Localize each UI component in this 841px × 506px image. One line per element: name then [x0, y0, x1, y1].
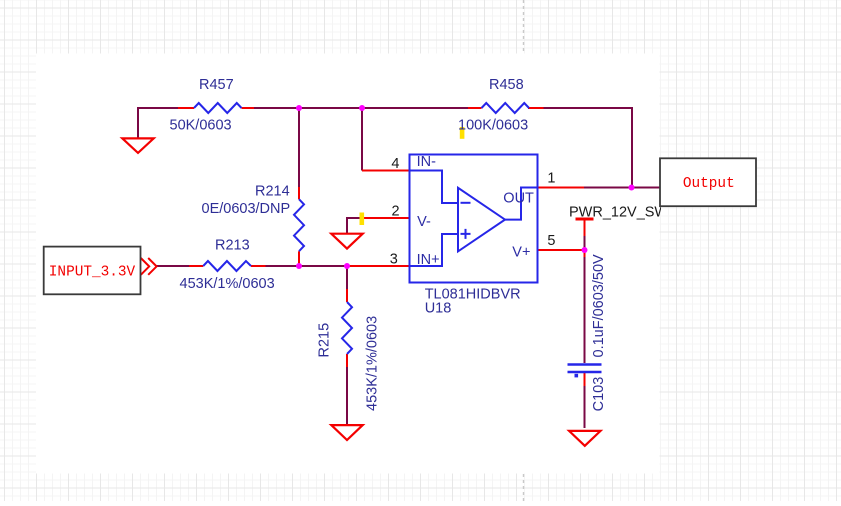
svg-text:C103: C103 [591, 377, 607, 412]
wire red: power symbol drop [584, 219, 586, 236]
wire: R458 right to output node [528, 108, 632, 188]
svg-text:Output: Output [683, 176, 735, 192]
power bar PWR_12V_SW [576, 218, 594, 221]
INPUT_3.3V offpage box [44, 247, 141, 295]
pin stub pin5 [537, 249, 585, 251]
wire: pin2 to gnd [347, 218, 364, 234]
svg-text:0E/0603/DNP: 0E/0603/DNP [202, 201, 291, 217]
ground G3 (R215) [331, 425, 362, 440]
wire: input port to R213 [157, 265, 191, 267]
svg-text:R214: R214 [255, 184, 290, 200]
svg-text:5: 5 [547, 233, 555, 249]
wire: gnd riser to top net [138, 108, 179, 139]
svg-text:3: 3 [390, 252, 398, 268]
ground G4 (C103) [569, 431, 600, 446]
pin stub pin3 [347, 265, 410, 267]
wire: top net between R457 and R458 [253, 107, 469, 109]
pin stub pin1 [537, 187, 584, 189]
wire: R215 bottom to gnd [346, 366, 348, 426]
junction dot pin5 [582, 247, 588, 253]
svg-text:R215: R215 [317, 323, 333, 358]
junction dot top2 [359, 105, 365, 111]
Output offpage box [660, 158, 756, 206]
input port chevron [141, 258, 157, 275]
svg-text:2: 2 [392, 204, 400, 220]
wire: output node row [583, 187, 660, 189]
svg-text:453K/1%/0603: 453K/1%/0603 [365, 316, 381, 411]
svg-text:IN-: IN- [417, 154, 437, 170]
junction dot top1 [296, 105, 302, 111]
svg-text:R213: R213 [215, 238, 250, 254]
svg-text:50K/0603: 50K/0603 [170, 117, 232, 133]
svg-text:4: 4 [391, 156, 399, 172]
svg-text:453K/1%/0603: 453K/1%/0603 [180, 276, 275, 292]
capacitor C103 [568, 365, 602, 378]
wire: C103 bottom to gnd [584, 384, 586, 428]
svg-text:V-: V- [417, 214, 431, 230]
yellow marker on pin2 wire [360, 213, 365, 226]
resistor R457 [178, 103, 254, 113]
svg-text:1: 1 [547, 170, 555, 186]
wire red: C103 lower lead [584, 373, 586, 387]
svg-text:U18: U18 [425, 301, 452, 317]
svg-text:INPUT_3.3V: INPUT_3.3V [49, 264, 136, 280]
pin stub pin4 [362, 170, 410, 172]
yellow marker near R458 value [460, 127, 465, 139]
wire: R213 to junctions [265, 265, 348, 267]
internal wire IN- [410, 171, 458, 204]
junction dot input2 [344, 263, 350, 269]
minus input mark [461, 202, 471, 204]
resistor R214 [294, 187, 304, 266]
schematic sheet [36, 54, 660, 474]
net label PWR_12V_SW (clipped by output box) [569, 204, 668, 220]
resistor R458 [468, 103, 544, 113]
svg-text:0.1uF/0603/50V: 0.1uF/0603/50V [591, 254, 607, 358]
svg-text:V+: V+ [512, 244, 530, 260]
wire: R214 column top [298, 107, 300, 188]
svg-text:R457: R457 [199, 77, 234, 93]
plus input mark [461, 229, 471, 239]
junction dot input1 [296, 263, 302, 269]
ground G2 (pin2) [331, 234, 362, 249]
wire: branch down to pin4 [361, 107, 363, 171]
internal wire OUT [505, 188, 538, 220]
ground G1 (top left) [122, 138, 153, 153]
op-amp triangle [458, 188, 505, 252]
svg-text:PWR_12V_SW: PWR_12V_SW [569, 204, 668, 220]
resistor R215 [342, 289, 352, 367]
wire red: below pin5 junction [584, 250, 586, 257]
wire: PWR column to C103 [584, 235, 586, 363]
page boundary dashed line [523, 0, 525, 501]
op-amp U18 body [410, 155, 538, 283]
svg-text:IN+: IN+ [417, 252, 440, 268]
resistor R213 [189, 261, 265, 271]
junction dot output [629, 185, 635, 191]
svg-text:OUT: OUT [503, 191, 534, 207]
wire: R215 column top [346, 266, 348, 290]
svg-text:R458: R458 [489, 77, 524, 93]
svg-text:100K/0603: 100K/0603 [458, 118, 528, 134]
internal wire IN+ [410, 234, 458, 266]
pin stub pin2 [363, 217, 410, 219]
